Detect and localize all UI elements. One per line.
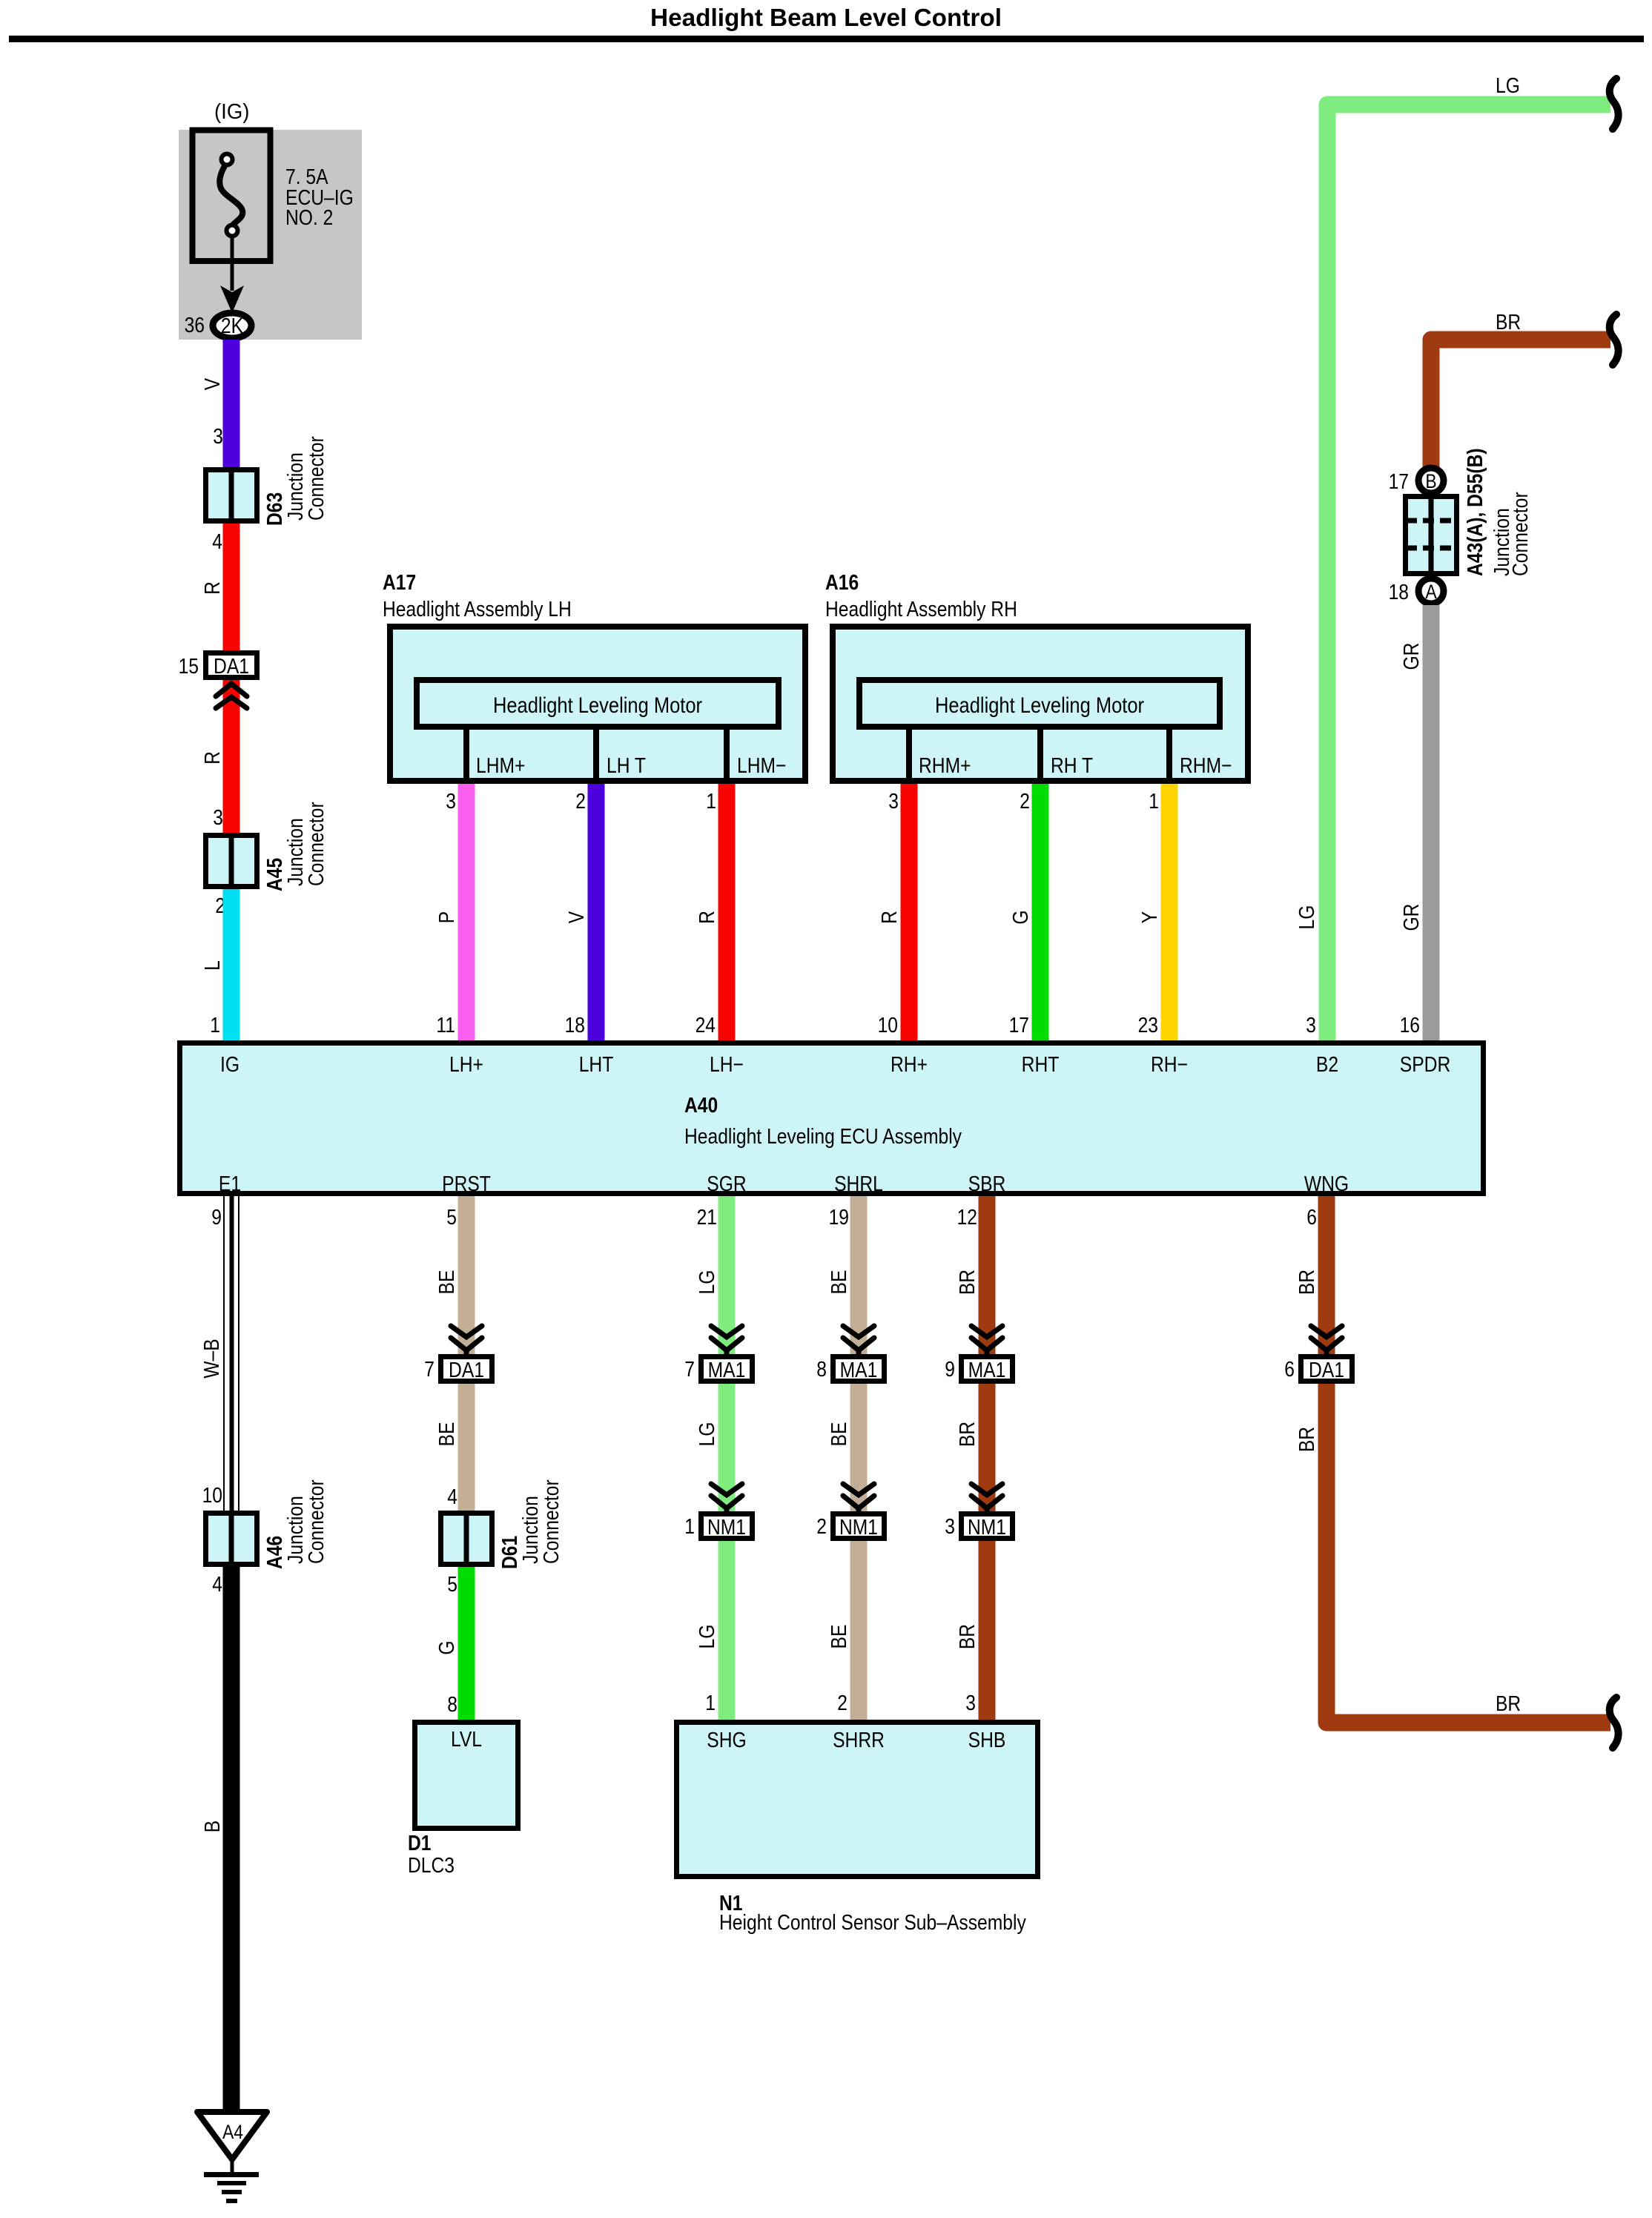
wire GR (gray) A43 to A40 SPDR — [1423, 605, 1440, 1042]
svg-text:BE: BE — [827, 1625, 851, 1649]
svg-text:7: 7 — [684, 1358, 695, 1382]
svg-text:6: 6 — [1306, 1206, 1317, 1230]
svg-text:3: 3 — [446, 790, 456, 813]
svg-text:5: 5 — [447, 1573, 457, 1597]
svg-text:R: R — [878, 911, 902, 924]
wire R (red) LHM- pin1 to A40 pin24 — [718, 784, 736, 1042]
svg-text:5: 5 — [446, 1206, 457, 1230]
svg-text:SHG: SHG — [707, 1729, 746, 1752]
svg-text:MA1: MA1 — [968, 1359, 1006, 1382]
svg-text:2: 2 — [575, 790, 586, 813]
wire BR from page break to A43(B) pin 17 — [1431, 340, 1610, 475]
svg-text:Headlight Beam Level Control: Headlight Beam Level Control — [650, 4, 1002, 31]
ground A4 — [197, 2112, 267, 2203]
svg-text:Connector: Connector — [1509, 492, 1533, 576]
wire BE MA1 to NM1 — [850, 1384, 868, 1513]
svg-text:DA1: DA1 — [449, 1359, 484, 1382]
svg-text:1: 1 — [706, 790, 716, 813]
splice DA1 (PRST) — [441, 1357, 492, 1383]
chevron into MA1 (BR) — [971, 1326, 1002, 1354]
svg-text:BR: BR — [956, 1422, 979, 1447]
wire LG from page break to A40 B2 — [1327, 105, 1610, 1042]
svg-text:8: 8 — [816, 1358, 827, 1382]
svg-text:LG: LG — [696, 1270, 719, 1295]
svg-text:RHM+: RHM+ — [919, 754, 971, 778]
svg-text:WNG: WNG — [1304, 1172, 1349, 1196]
svg-text:2K: 2K — [221, 314, 244, 338]
svg-text:B2: B2 — [1316, 1053, 1338, 1077]
svg-text:8: 8 — [447, 1693, 457, 1717]
junction connector A45 — [206, 836, 257, 887]
terminal B circle of A43/D55 — [1418, 468, 1444, 493]
wire R (red) DA1 to A45 — [223, 680, 240, 833]
svg-text:Height Control Sensor Sub–Asse: Height Control Sensor Sub–Assembly — [719, 1911, 1026, 1935]
svg-text:BR: BR — [956, 1624, 979, 1649]
junction connector D61 — [441, 1514, 492, 1565]
wire BR NM1 to N1 — [979, 1541, 996, 1722]
headlight assembly RH box A16 — [833, 627, 1248, 781]
svg-text:V: V — [201, 377, 225, 390]
svg-text:R: R — [201, 751, 225, 765]
svg-text:SPDR: SPDR — [1400, 1053, 1451, 1077]
svg-text:V: V — [565, 911, 589, 923]
svg-text:7: 7 — [424, 1358, 435, 1382]
wire LG NM1 to N1 — [718, 1541, 736, 1722]
wire BR DA1 to page break (bottom right) — [1326, 1384, 1610, 1723]
headlight leveling ECU assembly A40 — [180, 1043, 1484, 1194]
svg-text:LH−: LH− — [710, 1053, 744, 1077]
page break (BR bottom) — [1610, 1697, 1619, 1748]
wire from fuse to node 2K — [231, 236, 234, 291]
data link connector D1 DLC3 — [415, 1723, 518, 1829]
svg-text:9: 9 — [945, 1358, 955, 1382]
svg-text:MA1: MA1 — [840, 1359, 878, 1382]
svg-text:NM1: NM1 — [968, 1516, 1006, 1539]
fuse block background (IG) — [179, 130, 362, 340]
svg-text:DLC3: DLC3 — [408, 1854, 455, 1878]
svg-text:2: 2 — [1020, 790, 1030, 813]
page break (BR top) — [1610, 314, 1619, 365]
wire R (red) D63 to DA1 — [223, 524, 240, 650]
svg-text:RH+: RH+ — [891, 1053, 928, 1077]
splice MA1 (pin 8) — [833, 1357, 885, 1383]
svg-text:18: 18 — [565, 1014, 585, 1037]
chevron into NM1 (BR) — [971, 1484, 1002, 1512]
svg-text:10: 10 — [878, 1014, 898, 1037]
wire BE A40 PRST to DA1 — [458, 1196, 475, 1356]
svg-text:4: 4 — [447, 1485, 457, 1509]
wire BR MA1 to NM1 — [979, 1384, 996, 1513]
svg-text:NM1: NM1 — [707, 1516, 746, 1539]
svg-text:E1: E1 — [219, 1172, 241, 1196]
wire V (violet) 2K to D63 — [223, 340, 240, 468]
svg-text:21: 21 — [697, 1206, 717, 1230]
svg-text:R: R — [696, 911, 719, 924]
svg-text:RH−: RH− — [1151, 1053, 1188, 1077]
splice NM1 (pin 3) — [962, 1514, 1013, 1540]
svg-text:16: 16 — [1400, 1014, 1420, 1037]
wire LG MA1 to NM1 — [718, 1384, 736, 1513]
svg-text:DA1: DA1 — [214, 655, 249, 679]
svg-text:1: 1 — [1149, 790, 1159, 813]
height control sensor sub-assembly N1 — [677, 1723, 1038, 1877]
svg-text:RHM−: RHM− — [1180, 754, 1232, 778]
wire P (pink) LHM+ pin3 to A40 pin11 — [458, 784, 475, 1042]
svg-text:SHRL: SHRL — [834, 1172, 883, 1196]
splice MA1 (pin 7) — [701, 1357, 753, 1383]
terminal A circle of A43/D55 — [1418, 578, 1444, 604]
svg-text:SHRR: SHRR — [833, 1729, 885, 1752]
svg-text:A43(A), D55(B): A43(A), D55(B) — [1464, 448, 1487, 576]
svg-text:Headlight Assembly LH: Headlight Assembly LH — [383, 598, 572, 621]
chevron into MA1 (LG) — [711, 1326, 742, 1354]
svg-text:SHB: SHB — [968, 1729, 1006, 1752]
svg-text:GR: GR — [1400, 904, 1424, 931]
svg-text:BE: BE — [827, 1270, 851, 1295]
chevron into NM1 (BE) — [843, 1484, 874, 1512]
svg-text:Headlight Leveling Motor: Headlight Leveling Motor — [935, 693, 1144, 718]
headlight assembly LH box A17 — [390, 627, 805, 781]
svg-text:2: 2 — [837, 1691, 848, 1715]
svg-text:Headlight Assembly RH: Headlight Assembly RH — [825, 598, 1017, 621]
fuse F1 7.5A ECU-IG NO.2 — [193, 131, 271, 262]
svg-text:G: G — [435, 1640, 459, 1654]
wire R (red) RHM+ pin3 to A40 pin10 — [901, 784, 918, 1042]
svg-text:BR: BR — [1496, 311, 1521, 334]
junction connector A46 — [206, 1514, 257, 1565]
svg-text:GR: GR — [1400, 643, 1424, 670]
svg-text:Connector: Connector — [305, 1479, 328, 1564]
splice MA1 (pin 9) — [962, 1357, 1013, 1383]
svg-text:D1: D1 — [408, 1832, 432, 1855]
wire BR A40 to MA1 — [979, 1196, 996, 1356]
wire V (violet) LH T pin2 to A40 pin18 — [588, 784, 605, 1042]
svg-text:PRST: PRST — [442, 1172, 491, 1196]
title rule line — [9, 36, 1644, 42]
svg-text:23: 23 — [1138, 1014, 1158, 1037]
svg-text:BR: BR — [956, 1270, 979, 1295]
svg-text:4: 4 — [212, 1573, 222, 1597]
wire BE DA1 to D61 — [458, 1384, 475, 1511]
svg-text:A: A — [1425, 581, 1436, 603]
svg-text:9: 9 — [211, 1206, 222, 1230]
svg-text:1: 1 — [705, 1691, 716, 1715]
arrowhead into node 2K — [220, 285, 244, 313]
svg-text:Headlight Leveling Motor: Headlight Leveling Motor — [493, 693, 702, 718]
svg-text:3: 3 — [1306, 1014, 1316, 1037]
svg-text:15: 15 — [179, 655, 199, 679]
svg-text:RHT: RHT — [1022, 1053, 1060, 1077]
svg-text:36: 36 — [185, 314, 205, 337]
chevron into MA1 (BE) — [843, 1326, 874, 1354]
svg-text:LHM−: LHM− — [737, 754, 786, 778]
svg-text:A4: A4 — [222, 2121, 243, 2143]
svg-text:A40: A40 — [684, 1094, 718, 1118]
wire W-B (white/black) A40 E1 to A46 — [222, 1196, 240, 1511]
chevron into DA1 (WNG) — [1311, 1326, 1342, 1354]
svg-text:LHM+: LHM+ — [476, 754, 525, 778]
svg-text:NO. 2: NO. 2 — [285, 206, 333, 230]
wire G (green) RH T pin2 to A40 pin17 — [1032, 784, 1049, 1042]
svg-text:Headlight Leveling ECU Assembl: Headlight Leveling ECU Assembly — [684, 1125, 962, 1149]
wire G (green) D61 to DLC3 — [458, 1567, 475, 1720]
svg-text:18: 18 — [1389, 581, 1409, 604]
A16 terminal dividers — [906, 730, 912, 781]
svg-text:BE: BE — [827, 1422, 851, 1447]
svg-text:RH T: RH T — [1051, 754, 1093, 778]
svg-text:LH T: LH T — [607, 754, 646, 778]
svg-text:SGR: SGR — [707, 1172, 746, 1196]
svg-text:NM1: NM1 — [839, 1516, 878, 1539]
wire B (black) A46 to ground A4 — [223, 1567, 240, 2112]
svg-text:W–B: W–B — [200, 1339, 224, 1378]
svg-text:G: G — [1009, 910, 1033, 924]
svg-text:A16: A16 — [825, 571, 859, 595]
svg-text:12: 12 — [957, 1206, 977, 1230]
svg-text:17: 17 — [1009, 1014, 1029, 1037]
wire BR A40 WNG to DA1 — [1318, 1196, 1335, 1356]
wire L (cyan) A45 to A40 IG — [223, 889, 240, 1042]
wire Y (yellow) RHM- pin1 to A40 pin23 — [1161, 784, 1178, 1042]
svg-text:LG: LG — [696, 1422, 719, 1447]
svg-text:1: 1 — [210, 1014, 220, 1037]
svg-text:A17: A17 — [383, 571, 416, 595]
svg-text:1: 1 — [684, 1515, 695, 1539]
svg-text:3: 3 — [213, 425, 223, 449]
svg-text:3: 3 — [213, 806, 223, 830]
svg-text:3: 3 — [945, 1515, 955, 1539]
wire LG A40 to MA1 — [718, 1196, 736, 1356]
splice DA1 (pin 15) — [206, 653, 257, 679]
wire BE NM1 to N1 — [850, 1541, 868, 1722]
svg-text:Y: Y — [1138, 911, 1162, 923]
svg-text:11: 11 — [436, 1014, 455, 1037]
chevron into NM1 (LG) — [711, 1484, 742, 1512]
svg-text:6: 6 — [1284, 1358, 1295, 1382]
svg-text:P: P — [435, 911, 459, 923]
svg-text:B: B — [201, 1821, 225, 1832]
splice NM1 (pin 1) — [701, 1514, 753, 1540]
svg-text:BR: BR — [1496, 1692, 1521, 1716]
svg-text:LVL: LVL — [451, 1728, 482, 1752]
svg-text:(IG): (IG) — [214, 100, 249, 124]
chevron into DA1 (PRST) — [451, 1326, 482, 1354]
svg-text:L: L — [201, 960, 225, 971]
splice NM1 (pin 2) — [833, 1514, 885, 1540]
svg-text:LHT: LHT — [579, 1053, 614, 1077]
svg-text:Connector: Connector — [305, 802, 328, 886]
headlight leveling motor (RH) — [859, 680, 1220, 727]
svg-text:10: 10 — [202, 1484, 222, 1508]
svg-text:24: 24 — [696, 1014, 716, 1037]
node 2K (pin 36) — [213, 313, 251, 338]
A17 terminal dividers — [463, 730, 469, 781]
svg-text:BR: BR — [1295, 1427, 1319, 1452]
svg-text:BR: BR — [1295, 1270, 1319, 1295]
svg-text:B: B — [1425, 470, 1436, 492]
svg-text:Connector: Connector — [305, 436, 328, 521]
svg-text:3: 3 — [965, 1691, 976, 1715]
svg-text:LH+: LH+ — [449, 1053, 483, 1077]
junction connector D63 — [206, 470, 257, 521]
svg-text:4: 4 — [212, 530, 222, 554]
wire BE A40 to MA1 — [850, 1196, 868, 1356]
svg-text:R: R — [201, 581, 225, 595]
splice DA1 (WNG) — [1301, 1357, 1352, 1383]
svg-text:19: 19 — [829, 1206, 849, 1230]
page break (LG) — [1610, 79, 1619, 129]
headlight leveling motor (LH) — [417, 680, 779, 727]
chevron into DA1 — [216, 684, 247, 708]
svg-text:2: 2 — [816, 1515, 827, 1539]
svg-text:DA1: DA1 — [1309, 1359, 1344, 1382]
svg-text:SBR: SBR — [968, 1172, 1006, 1196]
svg-text:BE: BE — [435, 1270, 459, 1295]
svg-text:BE: BE — [435, 1422, 459, 1447]
junction connector A43(A), D55(B) — [1406, 497, 1457, 574]
svg-text:LG: LG — [1295, 905, 1319, 930]
svg-text:LG: LG — [1496, 74, 1520, 98]
svg-text:MA1: MA1 — [708, 1359, 746, 1382]
svg-text:17: 17 — [1389, 470, 1409, 494]
svg-text:Connector: Connector — [540, 1479, 564, 1564]
svg-text:LG: LG — [696, 1625, 719, 1649]
svg-text:3: 3 — [888, 790, 899, 813]
svg-text:IG: IG — [220, 1053, 239, 1077]
